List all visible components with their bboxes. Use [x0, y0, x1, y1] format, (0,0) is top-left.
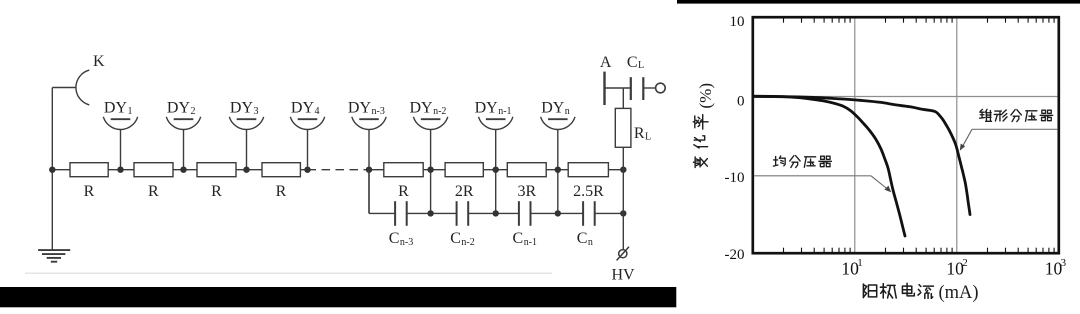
dynode DYn: [541, 99, 575, 129]
x tick labels: [841, 257, 1066, 278]
wire dynode DYn-1 to divider node: [495, 130, 497, 214]
svg-text:C: C: [513, 230, 524, 247]
wire dynode DYn-2 to divider node: [430, 130, 432, 214]
wire: [608, 169, 623, 171]
svg-text:-10: -10: [725, 170, 745, 186]
wire: [531, 212, 558, 214]
svg-text:R: R: [211, 183, 222, 200]
node divider junction x=52: [49, 167, 55, 173]
dynode DY1: [103, 99, 137, 129]
capacitor Cn-3: [389, 201, 414, 248]
svg-text:-20: -20: [725, 247, 745, 263]
chart axis ticks: [784, 18, 1055, 253]
svg-text:n-3: n-3: [372, 106, 385, 117]
wire: [546, 169, 568, 171]
svg-text:C: C: [450, 230, 461, 247]
resistor 2R: [445, 163, 483, 200]
node divider junction x=623: [620, 167, 626, 173]
svg-text:DY: DY: [230, 99, 254, 116]
svg-text:DY: DY: [541, 99, 565, 116]
node divider junction x=246: [243, 167, 249, 173]
node divider junction x=120: [117, 167, 123, 173]
resistor 2.5R: [568, 163, 608, 200]
svg-text:n-3: n-3: [400, 237, 413, 248]
svg-text:R: R: [84, 183, 95, 200]
wire RL to divider: [622, 147, 624, 169]
capacitor Cn-1: [513, 201, 538, 248]
resistor 3R: [507, 163, 546, 200]
resistor RL: [615, 108, 651, 147]
svg-text:C: C: [627, 54, 638, 71]
resistor R: [384, 163, 423, 200]
chart gridline y=0: [753, 96, 1059, 98]
svg-text:R: R: [634, 125, 645, 142]
HV terminal: [611, 247, 635, 284]
resistor R (divider #1): [70, 163, 108, 200]
node divider junction x=308: [304, 167, 310, 173]
svg-text:0: 0: [737, 93, 745, 109]
svg-text:n: n: [588, 237, 593, 248]
y axis title: [693, 83, 715, 168]
wire left rail (cathode to ground): [51, 88, 53, 251]
svg-text:1: 1: [128, 106, 133, 117]
svg-text:L: L: [638, 60, 644, 71]
node cap-chain junction x=623: [620, 210, 626, 216]
wire: [595, 212, 624, 214]
wire: [483, 169, 507, 171]
wire dynode DY4 to divider node: [307, 130, 309, 170]
wire: [496, 212, 519, 214]
wire: [468, 212, 496, 214]
svg-text:3R: 3R: [517, 183, 536, 200]
svg-text:10: 10: [730, 14, 745, 30]
wire: [108, 169, 134, 171]
wire CL to output terminal: [643, 87, 655, 89]
wire: [300, 169, 307, 171]
svg-text:n-2: n-2: [433, 106, 446, 117]
wire dynode DYn to divider node: [557, 130, 559, 214]
y tick labels: [725, 14, 745, 263]
node cap-chain junction x=558: [555, 210, 561, 216]
svg-text:2R: 2R: [455, 183, 474, 200]
dynode DY2: [166, 99, 200, 129]
svg-text:n-1: n-1: [498, 106, 511, 117]
wire dynode DY2 to divider node: [183, 130, 185, 170]
svg-text:4: 4: [315, 106, 320, 117]
svg-text:2: 2: [191, 106, 196, 117]
wire: [369, 169, 384, 171]
wire: [558, 212, 583, 214]
wire dynode DY3 to divider node: [246, 130, 248, 170]
svg-text:K: K: [93, 53, 105, 70]
svg-text:DY: DY: [348, 99, 372, 116]
svg-text:C: C: [577, 230, 588, 247]
anode A: [600, 54, 612, 105]
svg-text:3: 3: [254, 106, 259, 117]
svg-text:C: C: [389, 230, 400, 247]
svg-text:A: A: [600, 54, 612, 71]
svg-text:1: 1: [857, 257, 863, 269]
chart gridline x=100: [956, 17, 958, 253]
svg-text:R: R: [276, 183, 287, 200]
svg-text:R: R: [148, 183, 159, 200]
wire: [431, 212, 457, 214]
dynode DYn-2: [409, 99, 447, 129]
wire dynode DY1 to divider node: [120, 130, 122, 170]
scan artifact line: [25, 272, 552, 274]
svg-text:DY: DY: [409, 99, 433, 116]
wire dynode DYn-3 to divider node: [368, 130, 370, 214]
label leader: tapered divider: [972, 128, 1058, 130]
capacitor CL: [627, 54, 644, 100]
svg-text:(%): (%): [696, 83, 715, 108]
wire anode node down to RL: [622, 88, 624, 108]
curve: tapered divider: [753, 96, 970, 214]
curve: uniform divider: [753, 96, 905, 236]
node divider junction x=369: [366, 167, 372, 173]
svg-text:2.5R: 2.5R: [573, 183, 604, 200]
node divider junction x=431: [427, 167, 433, 173]
wire: [423, 169, 445, 171]
wire from K to left rail: [52, 87, 76, 89]
svg-text:(mA): (mA): [939, 283, 979, 303]
dynode DY3: [229, 99, 263, 129]
resistor R (divider #2): [134, 163, 173, 200]
label text: uniform divider: [773, 156, 785, 166]
resistor R (divider #3): [197, 163, 236, 200]
wire: [407, 212, 431, 214]
node divider junction x=184: [180, 167, 186, 173]
wire: [236, 169, 262, 171]
svg-text:n-2: n-2: [461, 237, 474, 248]
svg-text:DY: DY: [104, 99, 128, 116]
svg-text:2: 2: [962, 257, 968, 269]
node divider junction x=558: [555, 167, 561, 173]
wire cap-chain left drop: [368, 170, 370, 214]
chart frame: [753, 17, 1059, 253]
node cap-chain junction x=496: [493, 210, 499, 216]
svg-text:DY: DY: [167, 99, 191, 116]
ground: [38, 250, 70, 262]
wire dashed continuation: [308, 169, 370, 171]
label leader: uniform divider: [754, 175, 871, 177]
node cap-chain junction x=431: [427, 210, 433, 216]
wire: [173, 169, 197, 171]
svg-text:L: L: [645, 132, 651, 143]
label text: tapered divider: [980, 109, 992, 121]
svg-text:n-1: n-1: [524, 237, 537, 248]
svg-text:R: R: [398, 183, 409, 200]
capacitor Cn: [577, 201, 595, 248]
wire divider to HV terminal: [622, 170, 624, 250]
wire: [369, 212, 395, 214]
node divider junction x=496: [493, 167, 499, 173]
photocathode K: [76, 53, 105, 105]
svg-text:n: n: [565, 106, 570, 117]
dynode DYn-1: [475, 99, 513, 129]
svg-text:3: 3: [1061, 257, 1067, 269]
resistor R (divider #4): [262, 163, 300, 200]
svg-text:HV: HV: [611, 267, 635, 284]
capacitor Cn-2: [450, 201, 475, 248]
svg-text:DY: DY: [475, 99, 499, 116]
x axis title: [863, 283, 978, 303]
wire: [52, 169, 70, 171]
svg-text:DY: DY: [291, 99, 315, 116]
dynode DY4: [290, 99, 324, 129]
chart gridline x=10: [854, 17, 856, 253]
dynode DYn-3: [348, 99, 386, 129]
output terminal (open circle): [656, 83, 666, 93]
wire anode to CL: [605, 87, 631, 89]
